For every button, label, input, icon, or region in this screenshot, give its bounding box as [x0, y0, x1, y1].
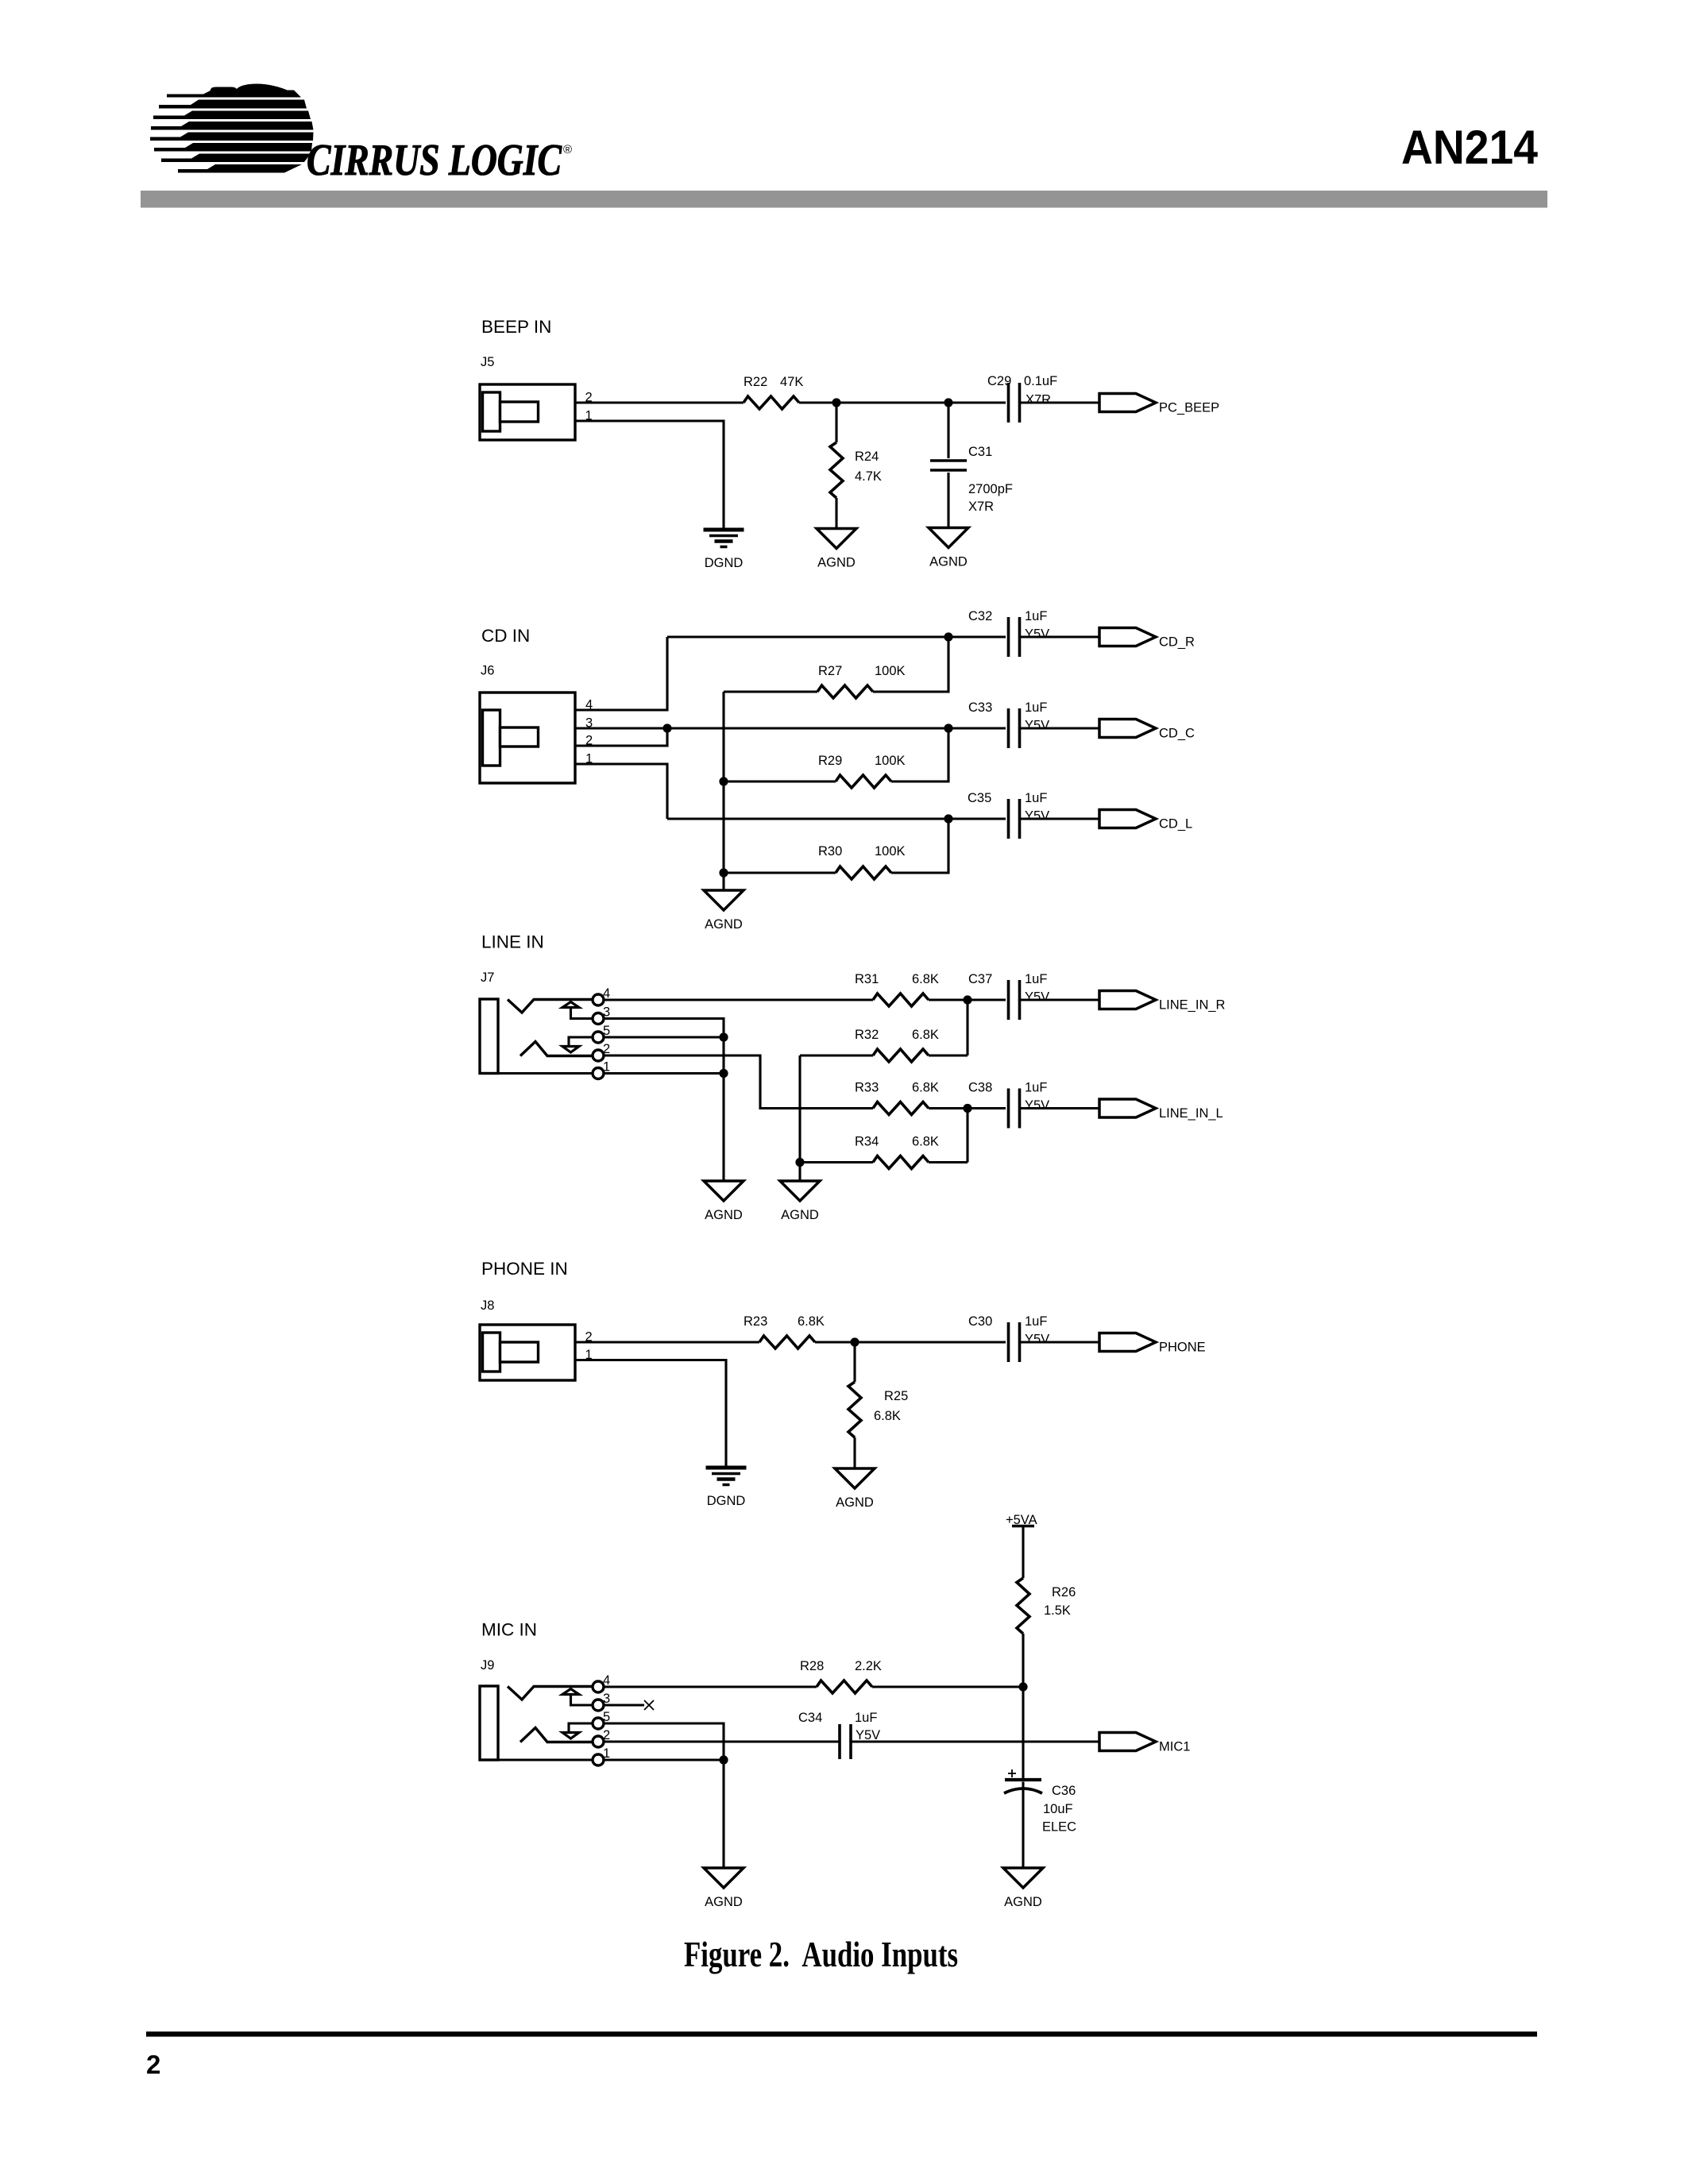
wire CD AGND bus — [722, 692, 724, 873]
wire R26 to MIC node — [1022, 1634, 1024, 1687]
junction R22/R24 node — [832, 398, 840, 407]
junction pins 2-3 tie — [662, 723, 671, 732]
resistor R28 — [817, 1680, 872, 1693]
svg-text:Y5V: Y5V — [1025, 809, 1049, 824]
output port PC_BEEP — [1099, 394, 1219, 415]
capacitor C37 — [1009, 980, 1020, 1020]
wire J7 pin5 — [604, 1036, 724, 1038]
svg-text:Figure 2. Audio Inputs: Figure 2. Audio Inputs — [684, 1935, 958, 1974]
resistor R23 — [759, 1336, 815, 1349]
svg-text:1uF: 1uF — [855, 1711, 877, 1725]
svg-text:R28: R28 — [800, 1659, 824, 1673]
jack connector J9 — [480, 1681, 604, 1765]
wire R32/R34 AGND feed — [798, 1055, 801, 1180]
capacitor C30 — [1009, 1322, 1020, 1362]
ground AGND (J7) — [704, 1181, 744, 1222]
svg-text:PHONE IN: PHONE IN — [481, 1259, 568, 1279]
svg-text:C37: C37 — [968, 972, 992, 986]
svg-text:C29: C29 — [987, 374, 1011, 388]
wire node to R24 — [835, 403, 837, 442]
junction R34/AGND — [795, 1158, 804, 1167]
svg-text:AGND: AGND — [929, 555, 968, 569]
junction CD_C/R29 — [944, 723, 952, 732]
svg-text:6.8K: 6.8K — [912, 972, 939, 986]
output port CD_C — [1099, 720, 1195, 741]
power bar +5VA — [1012, 1525, 1034, 1528]
svg-text:1uF: 1uF — [1025, 609, 1047, 623]
capacitor C34 — [840, 1724, 851, 1759]
wire J7 pin3 to AGND bus — [604, 1019, 724, 1181]
resistor R31 — [873, 994, 929, 1006]
wire R30 right riser — [891, 819, 948, 873]
output port CD_L — [1099, 810, 1192, 832]
wire R22 to C29 — [799, 401, 1006, 403]
svg-text:1uF: 1uF — [1025, 1081, 1047, 1095]
wire R32 left — [800, 1054, 873, 1056]
ground DGND (J8) — [706, 1468, 747, 1508]
Cirrus Logic logo cloud — [150, 84, 314, 173]
svg-text:CD_C: CD_C — [1159, 727, 1195, 741]
capacitor C29 — [1009, 383, 1020, 423]
svg-text:1: 1 — [603, 1060, 610, 1075]
svg-text:PC_BEEP: PC_BEEP — [1159, 401, 1219, 415]
svg-text:100K: 100K — [875, 844, 906, 859]
output port LINE_IN_L — [1099, 1099, 1223, 1121]
svg-text:J5: J5 — [481, 355, 494, 369]
svg-text:R32: R32 — [855, 1028, 879, 1042]
svg-text:X7R: X7R — [968, 500, 994, 514]
svg-text:C35: C35 — [968, 791, 991, 805]
resistor R30 — [836, 866, 891, 879]
resistor R26 — [1017, 1578, 1029, 1634]
wire J9 pin3 stub — [604, 1704, 644, 1706]
svg-text:J7: J7 — [481, 970, 494, 985]
svg-text:R24: R24 — [855, 450, 879, 464]
wire J8 pin2 to R23 — [575, 1341, 759, 1343]
svg-text:1.5K: 1.5K — [1044, 1603, 1071, 1618]
wire J7 sleeve — [498, 1072, 593, 1075]
output port MIC1 — [1099, 1733, 1190, 1754]
wire bias node to C36 — [1022, 1687, 1024, 1778]
svg-text:C38: C38 — [968, 1081, 992, 1095]
junction R30 tap — [719, 868, 728, 877]
svg-text:R33: R33 — [855, 1081, 879, 1095]
svg-text:1: 1 — [603, 1746, 610, 1761]
svg-text:4.7K: 4.7K — [855, 469, 882, 484]
header gray bar — [141, 191, 1547, 208]
wire C36 to AGND — [1022, 1782, 1024, 1868]
wire R27 left — [724, 690, 817, 693]
wire J5 pin2 to R22 — [575, 401, 744, 403]
output port PHONE — [1099, 1333, 1206, 1355]
wire C29 to PC_BEEP port — [1020, 401, 1099, 403]
svg-text:2: 2 — [146, 2050, 160, 2079]
svg-text:Y5V: Y5V — [856, 1728, 880, 1742]
svg-text:3: 3 — [603, 1692, 610, 1706]
svg-text:R26: R26 — [1052, 1585, 1076, 1599]
svg-text:6.8K: 6.8K — [912, 1081, 939, 1095]
svg-text:R31: R31 — [855, 972, 879, 986]
wire J9 pin5 to AGND bus — [604, 1723, 724, 1867]
svg-text:AGND: AGND — [1004, 1895, 1042, 1909]
wire R25 to AGND — [853, 1437, 856, 1468]
wire R24 to AGND — [835, 498, 837, 528]
svg-text:Y5V: Y5V — [1025, 719, 1049, 733]
svg-text:C30: C30 — [968, 1314, 992, 1329]
svg-text:6.8K: 6.8K — [912, 1135, 939, 1149]
svg-text:1uF: 1uF — [1025, 791, 1047, 805]
wire R34 riser — [966, 1109, 968, 1163]
svg-text:MIC IN: MIC IN — [481, 1620, 537, 1640]
svg-text:Y5V: Y5V — [1025, 627, 1049, 642]
wire J7 pin4 to R31 — [604, 998, 873, 1001]
capacitor C32 — [1009, 617, 1020, 657]
wire node to R25 — [853, 1342, 856, 1382]
svg-text:C33: C33 — [968, 700, 992, 715]
svg-text:2: 2 — [603, 1042, 610, 1056]
connector J6 — [480, 693, 575, 783]
svg-text:Y5V: Y5V — [1025, 1098, 1049, 1113]
capacitor C36 (electrolytic) — [1004, 1769, 1042, 1793]
svg-text:100K: 100K — [875, 754, 906, 768]
wire C32 to CD_R port — [1020, 635, 1099, 638]
svg-text:C32: C32 — [968, 609, 992, 623]
svg-text:AGND: AGND — [781, 1208, 819, 1222]
svg-text:4: 4 — [603, 986, 610, 1001]
wire R31 to C37 — [929, 998, 1006, 1001]
svg-text:100K: 100K — [875, 664, 906, 678]
junction pin1 tap (J9) — [719, 1755, 728, 1764]
svg-text:C36: C36 — [1052, 1784, 1076, 1798]
wire C33 to CD_C port — [1020, 727, 1099, 729]
svg-text:10uF: 10uF — [1043, 1802, 1073, 1816]
junction CD_L/R30 — [944, 814, 952, 823]
svg-text:C34: C34 — [798, 1711, 822, 1725]
wire R29 right riser — [891, 728, 948, 781]
wire J6 pin2 riser — [575, 728, 667, 746]
wire R34 right — [929, 1161, 968, 1163]
svg-text:2700pF: 2700pF — [968, 482, 1013, 496]
svg-text:R27: R27 — [818, 664, 842, 678]
wire C35 to CD_L port — [1020, 817, 1099, 820]
wire R32 riser — [966, 1000, 968, 1055]
svg-text:6.8K: 6.8K — [874, 1409, 901, 1423]
svg-text:C31: C31 — [968, 445, 992, 459]
svg-text:R25: R25 — [884, 1389, 908, 1403]
junction CD_R/R27 — [944, 632, 952, 641]
wire C30 to PHONE port — [1020, 1341, 1099, 1343]
wire bus to AGND — [722, 873, 724, 889]
svg-text:Y5V: Y5V — [1025, 1333, 1049, 1347]
ground AGND (R32/R34) — [780, 1181, 820, 1222]
junction pin1 tap — [719, 1069, 728, 1078]
wire R29 left — [724, 780, 836, 782]
capacitor C31 — [930, 461, 967, 470]
svg-text:J8: J8 — [481, 1298, 494, 1313]
wire R32 right — [929, 1054, 968, 1056]
svg-text:5: 5 — [603, 1024, 610, 1038]
svg-text:47K: 47K — [780, 375, 803, 389]
ground AGND (C36) — [1003, 1868, 1043, 1909]
capacitor C33 — [1009, 708, 1020, 748]
svg-text:DGND: DGND — [705, 556, 744, 570]
resistor R24 — [830, 442, 843, 498]
svg-text:LINE IN: LINE IN — [481, 932, 544, 952]
resistor R33 — [873, 1102, 929, 1115]
svg-text:X7R: X7R — [1026, 393, 1051, 407]
junction R29 tap — [719, 777, 728, 785]
capacitor C38 — [1009, 1089, 1020, 1129]
wire CD_L rail to C35 — [667, 817, 1006, 820]
svg-text:1uF: 1uF — [1025, 700, 1047, 715]
svg-text:CIRRUS LOGIC: CIRRUS LOGIC — [307, 136, 562, 185]
ground DGND (J5) — [704, 530, 744, 570]
wire J9 pin2 to C34 — [604, 1740, 839, 1742]
svg-text:CD IN: CD IN — [481, 626, 530, 646]
wire J6 pin1 riser to CD_L rail — [575, 764, 667, 819]
wire CD_R rail to C32 — [667, 635, 1006, 638]
wire J9 sleeve — [498, 1758, 593, 1761]
svg-text:J9: J9 — [481, 1658, 494, 1673]
wire R34 left — [800, 1161, 873, 1163]
svg-text:6.8K: 6.8K — [798, 1314, 825, 1329]
wire J5 pin1 to DGND — [575, 421, 724, 528]
wire R28 to bias node — [872, 1685, 1023, 1688]
svg-text:R30: R30 — [818, 844, 842, 859]
ground AGND (C31) — [929, 528, 968, 569]
ground AGND (CD IN) — [704, 890, 744, 932]
svg-text:R34: R34 — [855, 1135, 879, 1149]
junction R31/R32/C37 — [963, 995, 971, 1004]
junction C31 node — [944, 398, 952, 407]
connector J5 — [480, 384, 575, 440]
wire C37 to LINE_IN_R port — [1020, 998, 1099, 1001]
footer rule — [146, 2032, 1537, 2037]
svg-text:BEEP IN: BEEP IN — [481, 317, 551, 337]
resistor R29 — [836, 775, 891, 788]
resistor R22 — [744, 396, 799, 409]
svg-text:R29: R29 — [818, 754, 842, 768]
resistor R32 — [873, 1049, 929, 1062]
wire C31 to AGND — [947, 473, 949, 527]
wire R33 to C38 — [929, 1107, 1006, 1109]
svg-text:Y5V: Y5V — [1025, 990, 1049, 1005]
svg-text:0.1uF: 0.1uF — [1024, 374, 1057, 388]
svg-text:4: 4 — [603, 1673, 610, 1688]
svg-text:AGND: AGND — [817, 556, 856, 570]
jack connector J7 — [480, 994, 604, 1079]
wire +5VA to R26 — [1022, 1526, 1024, 1579]
wire R23 to C30 — [815, 1341, 1006, 1343]
wire J8 pin1 to DGND — [575, 1360, 726, 1467]
resistor R27 — [817, 685, 873, 698]
junction R26/R28/C36 — [1018, 1682, 1027, 1691]
svg-text:CD_L: CD_L — [1159, 817, 1192, 832]
junction pin5 tap — [719, 1032, 728, 1041]
wire C34 to MIC1 port — [852, 1740, 1099, 1742]
ground AGND (R25) — [835, 1468, 875, 1510]
svg-text:DGND: DGND — [707, 1494, 746, 1508]
svg-text:AGND: AGND — [705, 917, 743, 932]
connector J8 — [480, 1325, 575, 1380]
wire node to C31 — [947, 403, 949, 458]
ground AGND (J9) — [704, 1868, 744, 1909]
svg-text:6.8K: 6.8K — [912, 1028, 939, 1042]
wire J9 pin1 — [604, 1758, 724, 1761]
svg-text:J6: J6 — [481, 664, 494, 678]
svg-text:1uF: 1uF — [1025, 1314, 1047, 1329]
svg-text:R22: R22 — [744, 375, 767, 389]
wire R30 left — [724, 871, 836, 874]
svg-text:MIC1: MIC1 — [1159, 1740, 1190, 1754]
svg-text:AGND: AGND — [705, 1895, 743, 1909]
svg-text:2.2K: 2.2K — [855, 1659, 882, 1673]
wire J6 pin3 to C33 — [575, 727, 1006, 729]
capacitor C35 — [1009, 799, 1020, 839]
wire J9 pin4 to R28 — [604, 1685, 817, 1688]
svg-text:LINE_IN_R: LINE_IN_R — [1159, 998, 1226, 1013]
resistor R34 — [873, 1156, 929, 1169]
resistor R25 — [848, 1382, 861, 1437]
svg-text:2: 2 — [603, 1728, 610, 1742]
output port CD_R — [1099, 628, 1195, 650]
svg-text:AGND: AGND — [836, 1495, 874, 1510]
svg-text:PHONE: PHONE — [1159, 1341, 1206, 1355]
svg-text:R23: R23 — [744, 1314, 767, 1329]
svg-text:3: 3 — [603, 1005, 610, 1020]
svg-text:1uF: 1uF — [1025, 972, 1047, 986]
output port LINE_IN_R — [1099, 991, 1226, 1013]
svg-text:AN214: AN214 — [1401, 121, 1539, 174]
wire C38 to LINE_IN_L port — [1020, 1107, 1099, 1109]
wire J6 pin4 riser to CD_R rail — [575, 637, 667, 710]
wire J7 pin2 to R33 row — [604, 1055, 873, 1109]
no-connect X on J9 pin3 — [644, 1700, 654, 1710]
svg-text:®: ® — [563, 143, 572, 156]
wire R27 right riser — [873, 637, 948, 692]
junction R23/R25 node — [850, 1337, 859, 1346]
svg-text:AGND: AGND — [705, 1208, 743, 1222]
svg-text:5: 5 — [603, 1710, 610, 1724]
svg-text:LINE_IN_L: LINE_IN_L — [1159, 1106, 1223, 1121]
junction R33/R34/C38 — [963, 1104, 971, 1113]
svg-text:CD_R: CD_R — [1159, 635, 1195, 650]
svg-text:ELEC: ELEC — [1042, 1820, 1076, 1835]
ground AGND (R24) — [817, 529, 856, 570]
wire J7 pin1 — [604, 1072, 724, 1075]
